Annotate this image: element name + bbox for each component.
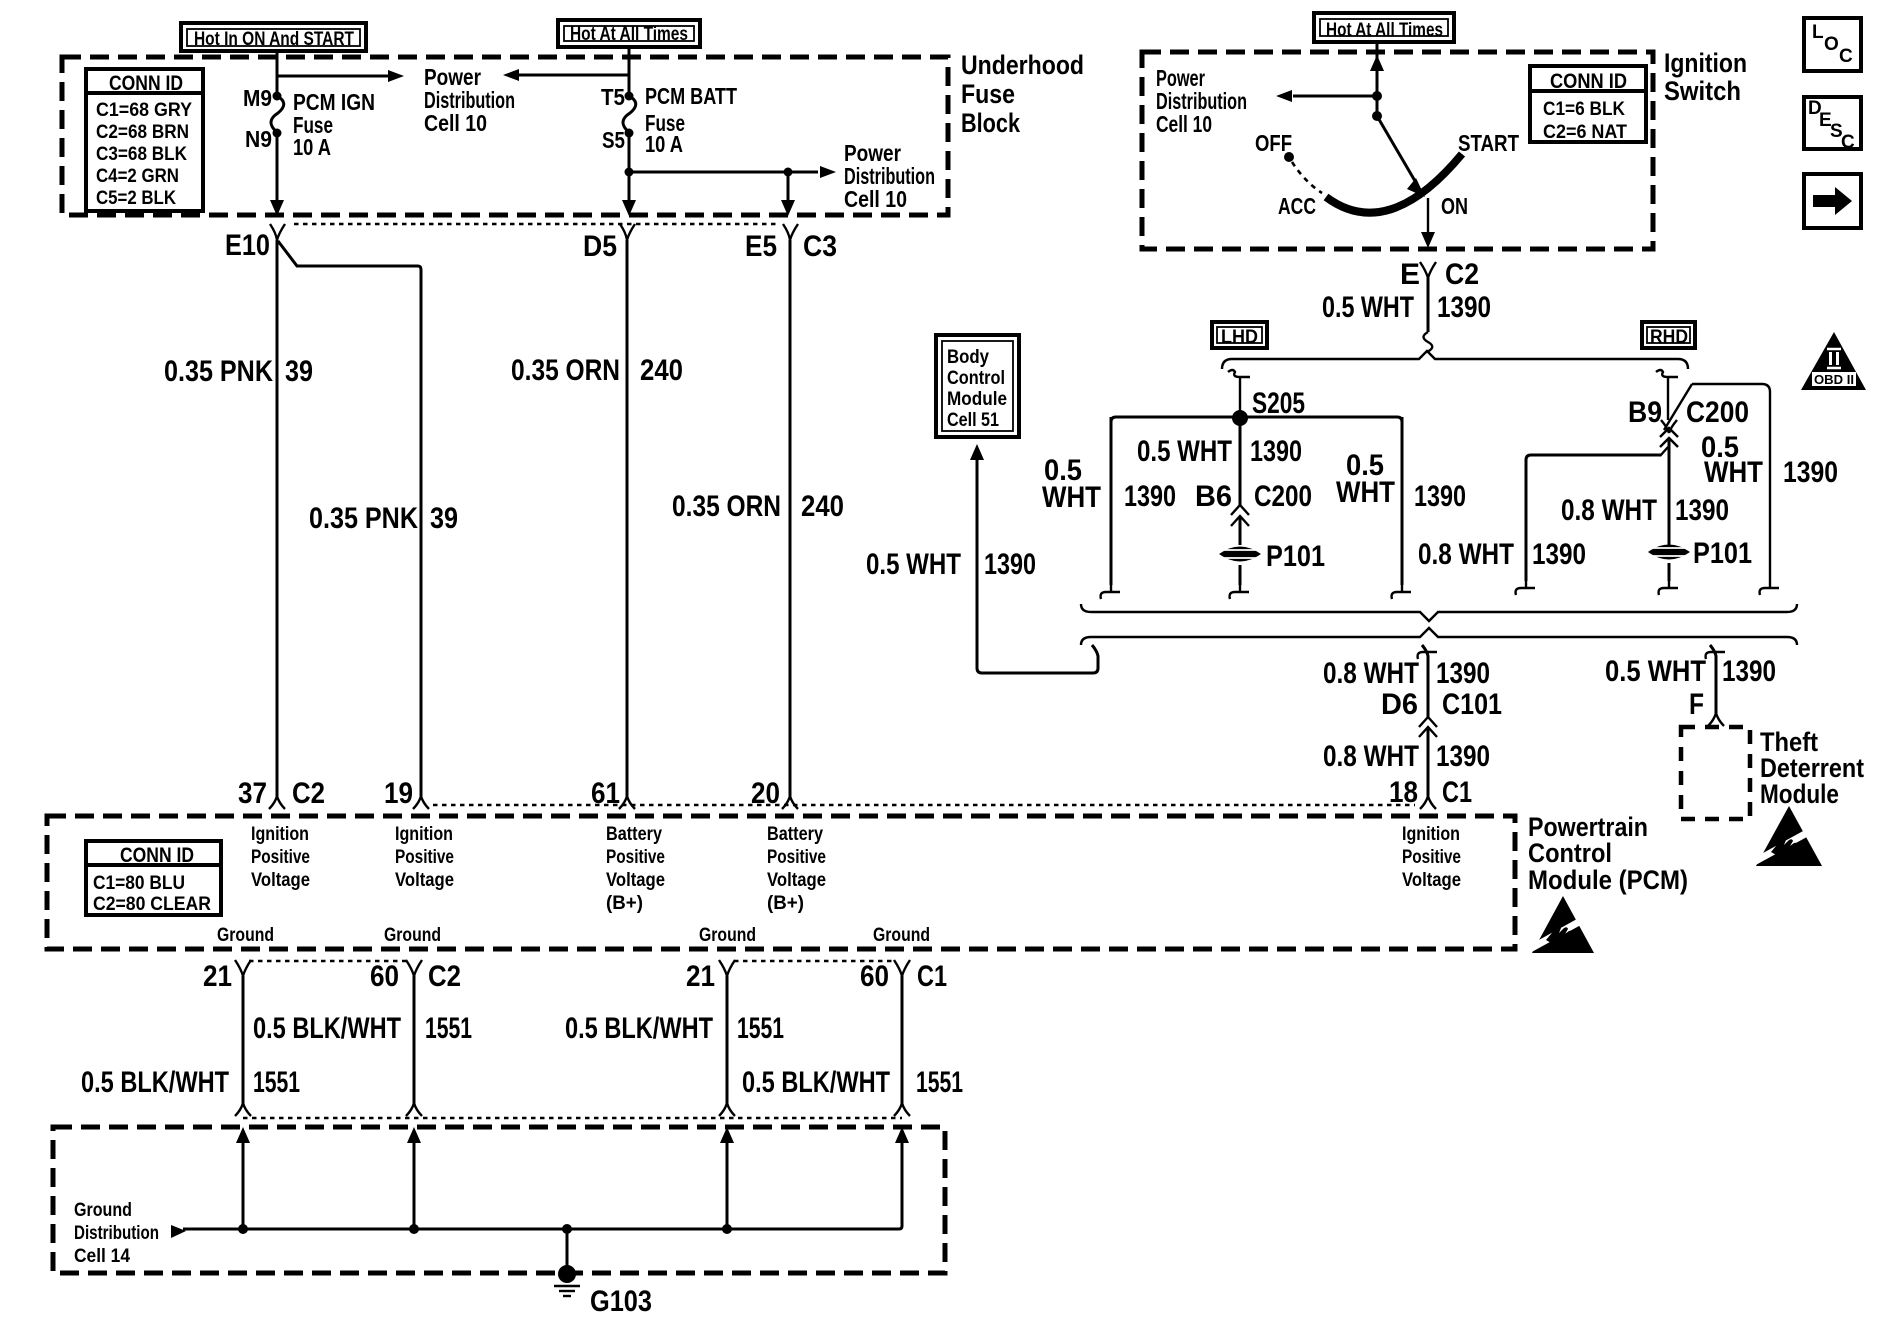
wire: E10 branch to PCM pin 19 <box>278 241 421 796</box>
wire: ground entry 4 (up arrow) <box>895 1127 909 1226</box>
svg-text:Ground: Ground <box>699 925 756 946</box>
pin 20 <box>751 777 798 810</box>
svg-text:C: C <box>1839 46 1853 67</box>
svg-text:Underhood: Underhood <box>961 50 1084 80</box>
connector E / C2 <box>1400 258 1479 291</box>
svg-text:1390: 1390 <box>1250 435 1302 468</box>
svg-text:Battery: Battery <box>767 824 823 845</box>
label: 0.5 WHT 1390 (center) <box>1137 435 1302 468</box>
svg-text:18: 18 <box>1389 776 1418 809</box>
label: 0.35 ORN 240 (pin 20 wire) <box>672 490 844 523</box>
position OFF <box>1255 130 1294 162</box>
svg-text:Cell 51: Cell 51 <box>947 410 999 431</box>
svg-text:1390: 1390 <box>1436 740 1490 773</box>
label: Theft Deterrent Module <box>1760 727 1864 809</box>
svg-text:0.8 WHT: 0.8 WHT <box>1323 740 1419 773</box>
label: Power Distribution Cell 10 (left) <box>424 64 515 136</box>
wire: branch to power distribution (left arrow) <box>1276 90 1382 102</box>
brace: splice spread (top) <box>1222 351 1688 369</box>
svg-text:1390: 1390 <box>1783 456 1838 489</box>
svg-text:M9: M9 <box>243 85 272 111</box>
svg-text:S5: S5 <box>602 127 625 153</box>
svg-text:B6: B6 <box>1195 480 1232 513</box>
svg-text:21: 21 <box>203 960 232 993</box>
label: 0.5 WHT 1390 (theft wire) <box>1605 655 1776 688</box>
svg-text:C1=6 BLK: C1=6 BLK <box>1543 99 1625 120</box>
wire: RHD branch 0.8 WHT to brace (left) <box>1516 447 1668 595</box>
wire: pin 21 C1 to ground box <box>719 976 735 1116</box>
svg-text:0.5 WHT: 0.5 WHT <box>1322 291 1414 324</box>
conn id table (ignition switch) <box>1530 66 1646 143</box>
label: 0.35 PNK 39 (pin 37 wire) <box>164 355 313 388</box>
svg-text:0.35 ORN: 0.35 ORN <box>672 490 781 523</box>
svg-text:0.5 BLK/WHT: 0.5 BLK/WHT <box>81 1066 229 1099</box>
wire: branch to power distribution (left arrow) <box>503 69 629 81</box>
grommet P101 (LHD) <box>1219 540 1325 573</box>
connector D6 / C101 (chevron) <box>1381 688 1502 737</box>
svg-text:37: 37 <box>238 777 267 810</box>
wire: ground entry 3 (up arrow) <box>720 1127 734 1234</box>
wire: 0.8 WHT 1390 to C101 D6 <box>1418 645 1437 718</box>
label box: Hot At All Times (fuse block) <box>558 20 700 47</box>
svg-text:0.5 WHT: 0.5 WHT <box>1137 435 1232 468</box>
ignition switch dashed box <box>1142 52 1653 249</box>
svg-text:Ignition: Ignition <box>1402 824 1460 845</box>
svg-text:240: 240 <box>801 490 844 523</box>
svg-text:C4=2 GRN: C4=2 GRN <box>96 166 179 187</box>
svg-text:Voltage: Voltage <box>606 870 665 891</box>
svg-text:CONN ID: CONN ID <box>109 72 183 95</box>
brace: harness collect (upper) <box>1081 604 1797 621</box>
label: 0.5 BLK/WHT 1551 (pin 21 C1 wire) <box>565 1012 784 1045</box>
wire: 0.5 WHT 1390 to body control module <box>970 444 1098 673</box>
svg-text:39: 39 <box>430 502 458 535</box>
svg-text:C3=68 BLK: C3=68 BLK <box>96 144 187 165</box>
svg-text:Positive: Positive <box>251 847 310 868</box>
svg-text:0.8 WHT: 0.8 WHT <box>1418 538 1514 571</box>
svg-text:C5=2 BLK: C5=2 BLK <box>96 188 176 209</box>
svg-text:D6: D6 <box>1381 688 1418 721</box>
pin 37 / C2 <box>238 777 325 810</box>
svg-text:61: 61 <box>591 777 620 810</box>
svg-text:Ignition: Ignition <box>1664 48 1747 78</box>
label: 0.5 WHT (RHD stack) <box>1701 431 1763 489</box>
label: 0.35 ORN 240 (pin 61 wire) <box>511 354 683 387</box>
wire: D5 drop (down arrow) <box>622 172 636 216</box>
svg-text:S205: S205 <box>1252 387 1305 420</box>
label: Battery Positive Voltage B+ (pin 61) <box>606 824 665 914</box>
svg-text:19: 19 <box>384 777 413 810</box>
wire: hot at all times feed into PCM BATT fuse <box>628 47 631 95</box>
connector B9 / C200 (slash) <box>1628 384 1749 447</box>
connector E10 <box>225 224 285 262</box>
svg-text:Cell 10: Cell 10 <box>844 186 907 212</box>
brace: harness spread (lower) <box>1081 628 1797 645</box>
svg-text:(B+): (B+) <box>606 893 643 914</box>
svg-text:P101: P101 <box>1693 537 1752 570</box>
wire: ground bus (arrow from Ground Distribution) <box>171 1225 902 1238</box>
label: Ground Distribution Cell 14 <box>74 1200 159 1267</box>
svg-text:E10: E10 <box>225 229 270 262</box>
svg-text:Module (PCM): Module (PCM) <box>1528 865 1688 895</box>
svg-text:1551: 1551 <box>425 1012 472 1045</box>
svg-text:C1: C1 <box>1442 776 1472 809</box>
label: 0.35 PNK 39 (pin 19 wire) <box>309 502 458 535</box>
svg-text:0.5 WHT: 0.5 WHT <box>1605 655 1706 688</box>
svg-text:Switch: Switch <box>1664 76 1741 106</box>
svg-text:C200: C200 <box>1686 396 1749 429</box>
wire: pin 21 C2 to ground box (0.5 BLK/WHT 1551) <box>235 976 251 1116</box>
label: Power Distribution Cell 10 (ignition) <box>1156 65 1247 137</box>
wire: E10 to PCM pin 37 (0.35 PNK 39) <box>276 240 279 796</box>
pin 60 / C2 <box>370 960 461 993</box>
wire: E5 drop (down arrow) <box>781 172 795 216</box>
svg-text:C3: C3 <box>803 230 837 263</box>
svg-text:1390: 1390 <box>1414 480 1466 513</box>
svg-text:Module: Module <box>947 389 1007 410</box>
svg-text:N9: N9 <box>245 126 272 152</box>
theft deterrent module dashed box <box>1681 727 1750 819</box>
wire: RHD 0.5 WHT from brace, right side <box>1692 384 1779 595</box>
label: 0.8 WHT 1390 (below C101) <box>1323 740 1490 773</box>
svg-text:C200: C200 <box>1254 480 1312 513</box>
svg-text:10 A: 10 A <box>645 131 683 157</box>
svg-text:Ground: Ground <box>384 925 441 946</box>
svg-text:60: 60 <box>860 960 889 993</box>
label box: Body Control Module Cell 51 <box>936 335 1019 437</box>
svg-text:WHT: WHT <box>1704 456 1763 489</box>
svg-text:0.8 WHT: 0.8 WHT <box>1561 494 1657 527</box>
svg-text:Ignition: Ignition <box>251 824 309 845</box>
fuse F1: PCM IGN fuse 10A (M9-N9) <box>271 92 284 138</box>
svg-text:Hot In ON And START: Hot In ON And START <box>194 29 354 50</box>
svg-text:D5: D5 <box>583 230 617 263</box>
label box: Hot In ON And START <box>181 23 366 51</box>
connector E5 / C3 <box>745 224 837 263</box>
svg-text:WHT: WHT <box>1042 481 1101 514</box>
connector D5 <box>583 224 635 263</box>
svg-text:OFF: OFF <box>1255 130 1292 156</box>
svg-text:60: 60 <box>370 960 399 993</box>
svg-text:Positive: Positive <box>767 847 826 868</box>
svg-text:10 A: 10 A <box>293 134 331 160</box>
next-page arrow box <box>1804 174 1861 228</box>
svg-text:0.5 BLK/WHT: 0.5 BLK/WHT <box>565 1012 713 1045</box>
wire: LHD right 0.5 WHT 1390 <box>1392 417 1411 599</box>
conn id table (PCM) <box>86 841 221 915</box>
esd symbol (PCM) <box>1528 896 1594 953</box>
svg-text:Block: Block <box>961 108 1021 138</box>
pin 61 <box>591 777 635 810</box>
svg-text:F: F <box>1689 688 1704 721</box>
svg-text:1551: 1551 <box>253 1066 300 1099</box>
svg-text:Voltage: Voltage <box>251 870 310 891</box>
loc box <box>1804 18 1861 71</box>
svg-text:CONN ID: CONN ID <box>120 844 194 867</box>
svg-text:G103: G103 <box>590 1285 652 1318</box>
svg-text:1390: 1390 <box>1675 494 1729 527</box>
svg-text:Positive: Positive <box>606 847 665 868</box>
label: Power Distribution Cell 10 (right) <box>844 140 935 212</box>
wire: PCM BATT fuse output junction <box>625 133 837 178</box>
wire: branch to power distribution (right arrow) <box>277 70 404 82</box>
splice S205 <box>1232 387 1305 426</box>
wire: PCM IGN fuse output to E10 (down arrow) <box>270 133 284 216</box>
svg-text:Ground: Ground <box>74 1200 132 1221</box>
fuse F2: PCM BATT fuse 10A (T5-S5) <box>623 92 636 138</box>
connector line (thin dotted) at ground box <box>243 1117 902 1120</box>
svg-text:21: 21 <box>686 960 715 993</box>
pin 21 (C1) <box>686 960 735 993</box>
wire: 0.8 WHT 1390 to PCM pin 18 <box>1427 729 1430 796</box>
label: Ignition Positive Voltage (pin 18) <box>1402 824 1461 891</box>
dashed travel OFF to ACC <box>1292 162 1322 193</box>
label: 0.5 WHT (right stack) <box>1336 449 1395 509</box>
svg-text:0.35 ORN: 0.35 ORN <box>511 354 620 387</box>
svg-text:Cell 10: Cell 10 <box>424 110 487 136</box>
svg-text:C1=68 GRY: C1=68 GRY <box>96 100 192 121</box>
svg-text:Distribution: Distribution <box>74 1223 159 1244</box>
label: 0.5 BLK/WHT 1551 (pin 60 C2 wire) <box>253 1012 472 1045</box>
svg-text:Control: Control <box>947 368 1005 389</box>
wire: switch output down (arrow at box edge) <box>1421 198 1435 248</box>
svg-text:C2=80 CLEAR: C2=80 CLEAR <box>93 894 211 915</box>
wire: LHD left 0.5 WHT 1390 <box>1101 417 1120 599</box>
powertrain control module dashed box <box>47 816 1515 949</box>
label: 0.5 WHT (left stack) <box>1042 454 1101 514</box>
wire: D5 to PCM pin 61 (0.35 ORN 240) <box>626 240 629 796</box>
wire: below C200 to P101 <box>1239 516 1242 545</box>
svg-text:Voltage: Voltage <box>767 870 826 891</box>
label: Underhood Fuse Block <box>961 50 1084 138</box>
label: 0.8 WHT 1390 (above C101) <box>1323 657 1490 690</box>
svg-text:1390: 1390 <box>1722 655 1776 688</box>
pin 18 / C1 <box>1389 776 1472 809</box>
svg-text:0.35 PNK: 0.35 PNK <box>164 355 273 388</box>
svg-text:1390: 1390 <box>1436 657 1490 690</box>
svg-text:1551: 1551 <box>916 1066 963 1099</box>
svg-text:0.5 BLK/WHT: 0.5 BLK/WHT <box>253 1012 401 1045</box>
svg-text:OBD II: OBD II <box>1814 372 1854 387</box>
label: Ignition Positive Voltage (pin 19) <box>395 824 454 891</box>
svg-text:C2=68 BRN: C2=68 BRN <box>96 122 189 143</box>
svg-text:0.5 BLK/WHT: 0.5 BLK/WHT <box>742 1066 890 1099</box>
wire: LHD feed hook <box>1228 370 1250 412</box>
svg-text:PCM BATT: PCM BATT <box>645 83 737 109</box>
wire: pin 60 C1 to ground box <box>894 976 910 1116</box>
svg-text:Ignition: Ignition <box>395 824 453 845</box>
switch arc ACC-ON-START <box>1326 154 1462 213</box>
svg-text:T5: T5 <box>601 84 625 110</box>
svg-text:Module: Module <box>1760 779 1839 809</box>
svg-text:Voltage: Voltage <box>395 870 454 891</box>
svg-text:0.8 WHT: 0.8 WHT <box>1323 657 1419 690</box>
svg-text:C2=6 NAT: C2=6 NAT <box>1543 122 1627 143</box>
svg-text:C: C <box>1841 132 1855 153</box>
svg-text:(B+): (B+) <box>767 893 804 914</box>
label: Powertrain Control Module (PCM) <box>1528 812 1688 895</box>
svg-text:E: E <box>1400 258 1420 291</box>
label: 0.5 BLK/WHT 1551 (pin 60 C1 wire) <box>742 1066 963 1099</box>
obd ii symbol <box>1801 332 1866 390</box>
connector line C3 (thin dotted) <box>294 223 777 226</box>
svg-text:1390: 1390 <box>1532 538 1586 571</box>
svg-text:O: O <box>1824 34 1839 55</box>
svg-text:START: START <box>1458 130 1519 156</box>
switch wiper node <box>1372 111 1382 121</box>
label: Battery Positive Voltage B+ (pin 20) <box>767 824 826 914</box>
wire: RHD center 0.8 WHT through P101 <box>1668 440 1671 545</box>
wire: P101 to brace (LHD center) <box>1230 565 1249 599</box>
connector line (thin dotted) below PCM pins 21/60 C1 <box>734 960 896 963</box>
svg-text:C2: C2 <box>1445 258 1479 291</box>
svg-text:1390: 1390 <box>1437 291 1491 324</box>
wire: RHD feed hook <box>1656 370 1678 420</box>
connector B6 / C200 (chevron) <box>1195 480 1312 526</box>
wire: ground entry 2 (up arrow) <box>407 1127 421 1234</box>
svg-text:L: L <box>1812 22 1824 43</box>
svg-text:Ground: Ground <box>217 925 274 946</box>
wire: RHD P101 to brace <box>1659 563 1678 595</box>
conn id table (fuse block) <box>86 69 203 211</box>
wire: battery feed into switch (up arrow) <box>1370 42 1384 117</box>
svg-text:1390: 1390 <box>1124 480 1176 513</box>
svg-text:Cell 14: Cell 14 <box>74 1246 130 1267</box>
svg-text:1551: 1551 <box>737 1012 784 1045</box>
svg-text:Voltage: Voltage <box>1402 870 1461 891</box>
svg-text:Positive: Positive <box>1402 847 1461 868</box>
label: 0.5 BLK/WHT 1551 (pin 21 C2 wire) <box>81 1066 300 1099</box>
label: 0.5 WHT 1390 (switch output) <box>1322 291 1491 324</box>
connector line (thin dotted) above PCM <box>433 804 1415 807</box>
label: PCM BATT Fuse 10 A <box>645 83 737 157</box>
svg-text:0.5 WHT: 0.5 WHT <box>866 548 961 581</box>
connector line (thin dotted) below PCM pins 21/60 C2 <box>249 960 407 963</box>
label: Ignition Positive Voltage (pin 37) <box>251 824 310 891</box>
svg-text:C1=80 BLU: C1=80 BLU <box>93 873 185 894</box>
svg-text:Fuse: Fuse <box>961 79 1015 109</box>
label: 0.8 WHT 1390 (RHD center) <box>1561 494 1729 527</box>
label box: LHD <box>1212 322 1267 348</box>
svg-text:ACC: ACC <box>1278 193 1316 219</box>
svg-text:Battery: Battery <box>606 824 662 845</box>
wire: 0.5 WHT 1390 from ignition switch <box>1424 278 1433 352</box>
ground G103 <box>554 1224 652 1318</box>
wire: E5 to PCM pin 20 (0.35 ORN 240) <box>789 240 792 796</box>
svg-text:Hot At All Times: Hot At All Times <box>570 24 688 45</box>
wire: LHD center to C200 <box>1239 418 1242 506</box>
svg-text:E5: E5 <box>745 230 777 263</box>
svg-text:CONN ID: CONN ID <box>1550 70 1627 93</box>
svg-text:RHD: RHD <box>1650 327 1688 348</box>
wire: 0.5 WHT 1390 to theft deterrent module <box>1706 645 1725 726</box>
svg-text:P101: P101 <box>1266 540 1325 573</box>
pin 21 (C2) <box>203 960 251 993</box>
svg-text:C2: C2 <box>292 777 325 810</box>
svg-text:Positive: Positive <box>395 847 454 868</box>
svg-text:ON: ON <box>1441 193 1468 219</box>
label box: Hot At All Times (ignition) <box>1314 13 1454 42</box>
wire: LHD splice bus <box>1111 417 1402 422</box>
svg-text:C1: C1 <box>917 960 947 993</box>
svg-text:LHD: LHD <box>1221 327 1258 348</box>
svg-text:WHT: WHT <box>1336 476 1395 509</box>
wire: ground entry 1 (up arrow) <box>236 1127 250 1234</box>
svg-text:Body: Body <box>947 347 989 368</box>
svg-text:Control: Control <box>1528 838 1612 868</box>
label: 0.8 WHT 1390 (RHD branch) <box>1418 538 1586 571</box>
label box: RHD <box>1642 322 1695 348</box>
svg-text:Ground: Ground <box>873 925 930 946</box>
svg-text:0.35 PNK: 0.35 PNK <box>309 502 418 535</box>
esd symbol (theft module) <box>1752 806 1822 866</box>
label: 0.5 WHT 1390 (BCM wire) <box>866 548 1036 581</box>
label: PCM IGN Fuse 10 A <box>293 89 375 160</box>
desc box <box>1804 97 1861 153</box>
svg-text:C2: C2 <box>428 960 461 993</box>
svg-text:Hot At All Times: Hot At All Times <box>1326 20 1443 41</box>
switch wiper arm (arrow to ON) <box>1377 116 1425 197</box>
pin 19 <box>384 777 429 810</box>
underhood fuse block dashed box <box>62 57 948 215</box>
ground distribution dashed box <box>53 1127 945 1273</box>
svg-text:240: 240 <box>640 354 683 387</box>
wire: pin 60 C2 to ground box <box>406 976 422 1116</box>
svg-text:39: 39 <box>285 355 313 388</box>
svg-text:1390: 1390 <box>984 548 1036 581</box>
pin 60 / C1 <box>860 960 947 993</box>
svg-text:C101: C101 <box>1442 688 1502 721</box>
label: Ignition Switch <box>1664 48 1747 106</box>
grommet P101 (RHD) <box>1648 537 1752 570</box>
wire: hot feed into PCM IGN fuse <box>276 51 279 95</box>
svg-text:20: 20 <box>751 777 780 810</box>
svg-text:Cell 10: Cell 10 <box>1156 111 1212 137</box>
svg-text:B9: B9 <box>1628 396 1662 429</box>
